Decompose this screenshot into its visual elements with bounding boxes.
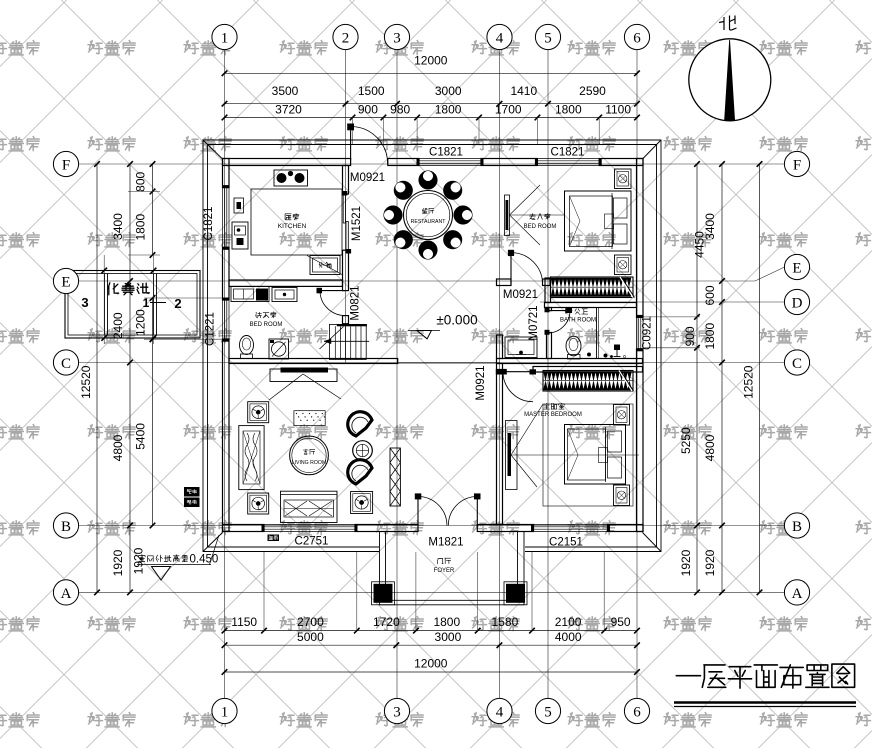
south exterior wall bbox=[223, 525, 644, 532]
svg-text:4: 4 bbox=[496, 704, 504, 720]
foyer label 门厅 bbox=[438, 558, 451, 564]
svg-text:980: 980 bbox=[390, 103, 410, 117]
svg-text:3500: 3500 bbox=[272, 84, 299, 98]
svg-text:C: C bbox=[792, 356, 802, 372]
axis bubbles right bbox=[784, 151, 809, 605]
master bedroom closet hatch bbox=[543, 371, 634, 392]
master bedroom inner outline bbox=[543, 404, 633, 506]
axis line 3 bbox=[396, 50, 398, 699]
kitchen sink bbox=[232, 222, 248, 249]
left extension lines bbox=[128, 192, 222, 340]
svg-text:12000: 12000 bbox=[414, 657, 448, 671]
axis line C bbox=[79, 362, 785, 364]
living label 客厅 bbox=[303, 449, 315, 454]
left dimension chain outer 12520 bbox=[79, 161, 100, 595]
washing machine bbox=[269, 339, 289, 359]
svg-text:2: 2 bbox=[174, 296, 181, 311]
master bedroom north wall bbox=[502, 366, 504, 368]
interior wall axis4 vertical bbox=[497, 335, 503, 525]
bedroom1 bed bbox=[565, 191, 632, 251]
kitchen stove bbox=[274, 170, 308, 186]
window C2751 south living bbox=[262, 524, 358, 532]
porch outline bbox=[380, 532, 525, 605]
living speaker bottom-right bbox=[351, 492, 373, 514]
svg-text:BATH ROOM: BATH ROOM bbox=[560, 318, 596, 324]
top dimension row axis spans bbox=[222, 84, 640, 107]
svg-text:C1821: C1821 bbox=[429, 147, 463, 159]
svg-text:M0921: M0921 bbox=[350, 172, 385, 184]
svg-text:5400: 5400 bbox=[134, 423, 148, 450]
svg-text:5250: 5250 bbox=[679, 427, 693, 454]
septic tank 化粪池 bbox=[65, 271, 200, 339]
dining round table bbox=[404, 191, 453, 240]
living cabinet west bbox=[239, 426, 264, 490]
master nightstand top bbox=[614, 405, 630, 426]
svg-text:950: 950 bbox=[611, 615, 631, 629]
master nightstand bottom bbox=[614, 485, 630, 506]
window C1821 west kitchen bbox=[222, 185, 230, 250]
svg-text:5: 5 bbox=[544, 704, 552, 720]
left dimension chain mid bbox=[111, 161, 133, 595]
svg-text:C: C bbox=[61, 356, 71, 372]
svg-text:1100: 1100 bbox=[605, 103, 631, 117]
living round table bbox=[290, 436, 329, 475]
svg-text:B: B bbox=[792, 519, 802, 535]
svg-text:4800: 4800 bbox=[111, 434, 125, 461]
door M0921 master bedroom bbox=[496, 369, 536, 402]
axis line 2 bbox=[345, 50, 347, 363]
master label 主卧室 bbox=[544, 403, 565, 409]
svg-text:1800: 1800 bbox=[433, 615, 460, 629]
svg-text:A: A bbox=[792, 586, 803, 602]
title 一层平面布置图 bbox=[674, 664, 856, 706]
svg-text:F: F bbox=[793, 157, 801, 173]
laundry toilet bbox=[240, 336, 254, 359]
svg-text:1200: 1200 bbox=[134, 309, 148, 336]
svg-text:C1221: C1221 bbox=[205, 312, 217, 346]
svg-text:3000: 3000 bbox=[435, 630, 462, 644]
west exterior wall bbox=[223, 159, 230, 532]
window C0921 east bathroom bbox=[636, 315, 644, 351]
master bedroom north wall segments bbox=[533, 367, 643, 373]
door M1521 kitchen sliding bbox=[342, 191, 351, 254]
svg-text:2590: 2590 bbox=[579, 84, 606, 98]
bottom dimension row detail bbox=[222, 615, 640, 633]
living side table bbox=[353, 441, 373, 461]
bathroom label 公卫 bbox=[567, 308, 588, 315]
svg-text:E: E bbox=[792, 260, 801, 276]
right dimension chain mid bbox=[703, 161, 725, 595]
axis bubbles left bbox=[53, 151, 78, 605]
top dimension row detail bbox=[222, 103, 640, 121]
svg-text:BED ROOM: BED ROOM bbox=[524, 224, 557, 230]
svg-text:M0921: M0921 bbox=[503, 289, 538, 301]
svg-text:±0.000: ±0.000 bbox=[436, 313, 477, 328]
svg-text:1: 1 bbox=[221, 30, 229, 46]
right extension lines bbox=[643, 317, 700, 348]
svg-text:3: 3 bbox=[393, 704, 401, 720]
svg-text:A: A bbox=[61, 586, 72, 602]
svg-text:4800: 4800 bbox=[703, 434, 717, 461]
svg-text:2: 2 bbox=[342, 30, 350, 46]
svg-text:C2751: C2751 bbox=[295, 536, 329, 548]
right dimension chain outer 12520 bbox=[742, 161, 763, 595]
level marker ±0.000 bbox=[408, 313, 478, 339]
washbasin outside bathroom bbox=[505, 337, 537, 358]
living TV unit bbox=[269, 368, 341, 401]
svg-text:C1821: C1821 bbox=[203, 207, 215, 241]
svg-text:M0721: M0721 bbox=[528, 305, 540, 340]
window C1821 north bedroom bbox=[535, 158, 602, 166]
living sofa bbox=[281, 491, 338, 522]
north exterior wall bbox=[223, 159, 644, 166]
svg-text:1800: 1800 bbox=[555, 103, 582, 117]
rain cover label 遮雨 bbox=[268, 535, 280, 542]
kitchen wall cabinet small bbox=[234, 198, 244, 213]
living armchair top bbox=[348, 412, 372, 436]
bottom dimension row spans bbox=[222, 630, 640, 648]
living dotted rug bbox=[294, 411, 325, 426]
door M0721 bathroom bbox=[545, 307, 573, 335]
axis bubbles top bbox=[212, 24, 650, 49]
svg-text:2100: 2100 bbox=[555, 615, 582, 629]
interior wall C axis bbox=[229, 359, 643, 364]
svg-text:800: 800 bbox=[134, 171, 148, 191]
eave overhang outline bbox=[203, 140, 661, 552]
svg-text:1700: 1700 bbox=[495, 103, 522, 117]
entry screen hatch bbox=[390, 448, 400, 506]
door M1821 foyer double entrance bbox=[415, 493, 481, 525]
door M0821 laundry bbox=[317, 288, 345, 316]
axis line B bbox=[79, 525, 785, 527]
top dimension row 12000 bbox=[222, 54, 640, 77]
electric boxes 强电 弱电 bbox=[184, 487, 200, 507]
svg-text:FOYER: FOYER bbox=[434, 568, 455, 574]
axis line 6 bbox=[636, 50, 638, 699]
svg-text:3000: 3000 bbox=[435, 84, 462, 98]
svg-text:3720: 3720 bbox=[275, 103, 302, 117]
svg-text:3400: 3400 bbox=[703, 213, 717, 240]
fridge label 冰箱 bbox=[319, 262, 331, 267]
bedroom1 closet hatch bbox=[551, 277, 635, 298]
svg-text:1580: 1580 bbox=[492, 615, 519, 629]
svg-text:C2151: C2151 bbox=[549, 537, 583, 549]
svg-text:BED ROOM: BED ROOM bbox=[250, 322, 283, 328]
north arrow bbox=[689, 39, 771, 121]
svg-text:D: D bbox=[792, 295, 803, 311]
laundry counter sinks bbox=[231, 287, 297, 302]
interior wall axis2 kitchen-dining bbox=[343, 166, 349, 324]
svg-text:1500: 1500 bbox=[358, 84, 385, 98]
right dimension chain inner bbox=[679, 161, 707, 595]
ground level note 室内外地高差0.450 bbox=[137, 535, 219, 580]
master bed bbox=[565, 425, 626, 485]
porch column left bbox=[372, 582, 395, 605]
svg-text:6: 6 bbox=[633, 704, 641, 720]
fridge 冰箱 bbox=[307, 256, 342, 275]
svg-text:1410: 1410 bbox=[510, 84, 537, 98]
svg-text:1150: 1150 bbox=[231, 615, 257, 629]
interior wall E axis kitchen bottom bbox=[229, 280, 343, 286]
east exterior wall bbox=[637, 159, 644, 532]
door M0921 north entrance bbox=[347, 124, 387, 164]
svg-text:LIVING ROOM: LIVING ROOM bbox=[292, 460, 327, 466]
bedroom1 nightstand bottom bbox=[615, 255, 632, 275]
svg-text:5: 5 bbox=[544, 30, 552, 46]
svg-text:0.450: 0.450 bbox=[190, 554, 219, 566]
kitchen counter bbox=[251, 189, 342, 255]
top extension lines bbox=[353, 118, 600, 145]
svg-text:4000: 4000 bbox=[555, 630, 582, 644]
bathroom west wall bbox=[547, 308, 552, 359]
svg-text:B: B bbox=[61, 519, 71, 535]
north label 北 bbox=[719, 16, 737, 31]
svg-text:1800: 1800 bbox=[703, 323, 717, 350]
living speaker bottom-left bbox=[248, 493, 269, 514]
svg-text:1920: 1920 bbox=[679, 549, 693, 576]
axis line F bbox=[79, 163, 785, 165]
kitchen label 厨房 bbox=[285, 214, 299, 220]
dining chairs bbox=[384, 171, 473, 260]
svg-text:F: F bbox=[62, 157, 70, 173]
svg-text:M0821: M0821 bbox=[350, 285, 362, 320]
svg-text:M1521: M1521 bbox=[351, 206, 363, 241]
axis line A bbox=[79, 591, 785, 593]
svg-text:M0921: M0921 bbox=[475, 365, 487, 400]
bedroom1 label 老人房 bbox=[530, 213, 551, 219]
laundry label 洗衣房 bbox=[256, 312, 277, 318]
bathroom shower head bbox=[587, 345, 626, 358]
svg-text:1800: 1800 bbox=[435, 103, 462, 117]
svg-text:3: 3 bbox=[81, 295, 88, 310]
master TV panel bbox=[506, 404, 640, 490]
living speaker top-left bbox=[248, 402, 269, 423]
svg-text:900: 900 bbox=[683, 326, 697, 346]
svg-text:12520: 12520 bbox=[742, 365, 756, 399]
svg-text:1: 1 bbox=[221, 704, 229, 720]
bedroom1 nightstand top bbox=[615, 169, 632, 189]
bathroom toilet bbox=[566, 336, 581, 359]
axis line 1 bbox=[224, 50, 226, 699]
svg-text:1920: 1920 bbox=[132, 547, 146, 574]
bathroom divider bbox=[597, 308, 599, 359]
svg-text:1800: 1800 bbox=[134, 214, 148, 241]
axis line E left bbox=[79, 280, 755, 282]
svg-text:E: E bbox=[61, 274, 70, 290]
interior wall D axis bathroom top bbox=[545, 303, 637, 308]
svg-text:4: 4 bbox=[496, 30, 504, 46]
bedroom1 TV panel bbox=[505, 185, 565, 245]
bottom extension lines bbox=[264, 552, 604, 631]
left dimension chain inner bbox=[134, 161, 156, 528]
interior wall E axis bedroom1 south bbox=[497, 279, 551, 286]
svg-text:MASTER BEDROOM: MASTER BEDROOM bbox=[524, 412, 582, 418]
dining label 餐厅 bbox=[422, 208, 434, 213]
svg-text:900: 900 bbox=[358, 103, 378, 117]
svg-text:5000: 5000 bbox=[297, 630, 324, 644]
svg-text:C1821: C1821 bbox=[551, 147, 585, 159]
svg-text:1720: 1720 bbox=[373, 615, 400, 629]
bottom dimension row 12000 bbox=[222, 657, 640, 675]
septic dim lines bbox=[101, 255, 156, 344]
living armchair bottom bbox=[348, 460, 372, 484]
svg-text:12520: 12520 bbox=[79, 365, 93, 399]
svg-text:3400: 3400 bbox=[111, 213, 125, 240]
axis line 4 bbox=[499, 50, 501, 699]
door M0921 bedroom1 bbox=[508, 250, 543, 284]
axis bubbles bottom bbox=[212, 698, 650, 723]
svg-text:C0921: C0921 bbox=[642, 316, 654, 350]
svg-text:2700: 2700 bbox=[297, 615, 324, 629]
septic compartment 1 bbox=[143, 296, 166, 310]
svg-text:12000: 12000 bbox=[414, 54, 448, 68]
axis line D bbox=[540, 301, 784, 303]
staircase bbox=[320, 324, 370, 360]
svg-text:RESTAURANT: RESTAURANT bbox=[411, 219, 447, 225]
window C2151 south master bbox=[531, 524, 610, 532]
svg-text:600: 600 bbox=[703, 285, 717, 305]
septic tank label 化粪池 bbox=[108, 282, 149, 294]
axis line E leader right bbox=[755, 267, 785, 281]
axis line 5 bbox=[547, 50, 549, 699]
svg-text:M1821: M1821 bbox=[428, 537, 463, 549]
svg-text:6: 6 bbox=[633, 30, 641, 46]
svg-text:1920: 1920 bbox=[111, 549, 125, 576]
svg-text:KITCHEN: KITCHEN bbox=[278, 223, 307, 230]
svg-text:1: 1 bbox=[143, 296, 150, 310]
window C1821 north dining bbox=[417, 158, 484, 166]
window C1221 west laundry bbox=[222, 298, 230, 342]
svg-text:1920: 1920 bbox=[703, 549, 717, 576]
porch column right bbox=[504, 582, 527, 605]
closet side wall E-D bbox=[545, 278, 551, 303]
svg-text:3: 3 bbox=[393, 30, 401, 46]
